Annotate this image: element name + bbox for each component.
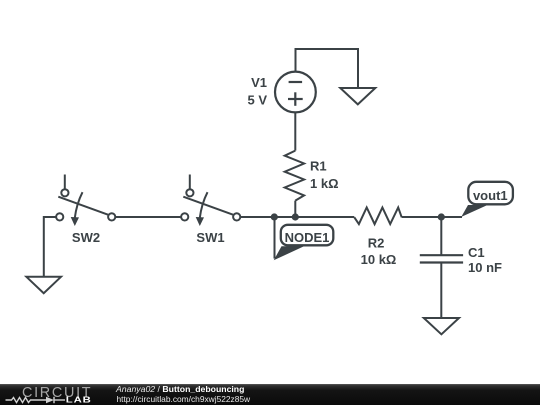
ground (bottom right) [424,318,459,334]
node flag vout1 [461,182,513,217]
wire V1 top to ground [296,49,359,88]
junction node at R1 [292,213,299,220]
footer bar [0,384,540,405]
wire SW1 to R2 [240,216,354,218]
switch SW1 [181,175,240,227]
svg-text:http://circuitlab.com/ch9xwj52: http://circuitlab.com/ch9xwj522z85w [117,394,252,404]
svg-text:1 kΩ: 1 kΩ [310,176,339,191]
svg-text:5 V: 5 V [247,93,267,108]
resistor R1 [285,151,304,201]
svg-text:R2: R2 [368,236,385,251]
wire C1 to ground [440,263,442,319]
switch SW2 [56,175,115,227]
svg-text:V1: V1 [251,75,267,90]
ground (top right) [340,88,375,104]
svg-text:SW2: SW2 [72,230,100,245]
ground (left) [26,277,61,293]
junction node at vout1 [438,213,445,220]
svg-text:R1: R1 [310,159,327,174]
resistor R2 [354,208,401,225]
wire SW2 to ground (left) [44,217,56,277]
svg-text:C1: C1 [468,245,485,260]
CircuitLab logo [6,385,93,405]
svg-text:LAB: LAB [66,396,92,405]
svg-text:10 nF: 10 nF [468,260,502,275]
capacitor C1 [420,255,463,262]
voltage source V1 [275,72,316,113]
svg-text:vout1: vout1 [473,188,508,203]
wire R2 to vout1 [402,216,462,218]
svg-text:SW1: SW1 [196,230,224,245]
svg-text:10 kΩ: 10 kΩ [361,252,397,267]
wire V1 to R1 [294,112,296,151]
svg-text:NODE1: NODE1 [285,230,330,245]
wire SW2 to SW1 [115,216,181,218]
node flag NODE1 [274,217,334,260]
svg-text:Ananya02 / Button_debouncing: Ananya02 / Button_debouncing [115,384,244,394]
wire node to C1 [440,217,442,255]
junction node at NODE1 [271,213,278,220]
wire R1 to NODE1 [294,201,296,217]
